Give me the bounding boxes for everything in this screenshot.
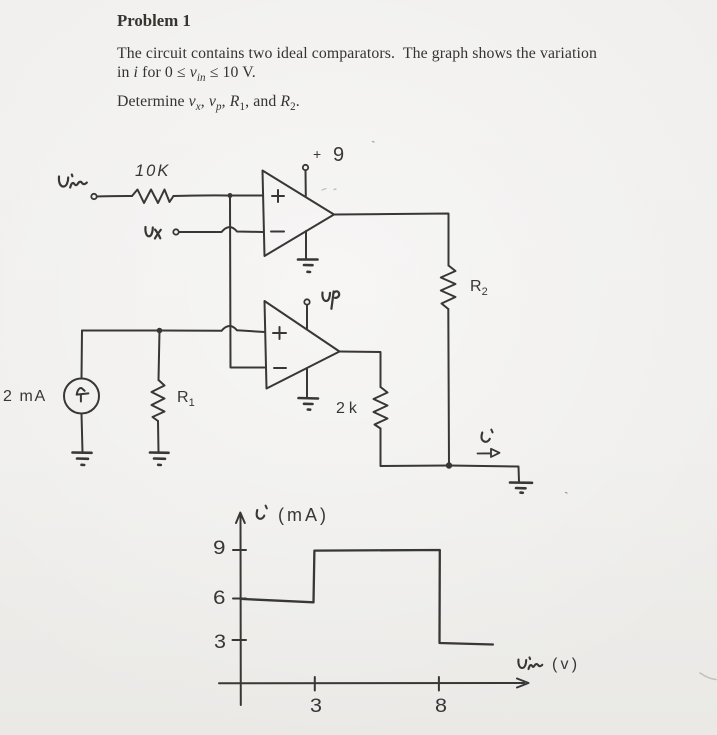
wire vp terminal to U2 top edge bbox=[306, 305, 308, 329]
faint pencil speck near U1 apex bbox=[322, 189, 336, 191]
op-amp U1 bbox=[263, 171, 335, 257]
wire U1 output to R2 bbox=[334, 214, 449, 266]
ground bottom right bbox=[510, 483, 532, 493]
wire U2 bottom edge to ground bbox=[306, 369, 308, 398]
ground below U2 bbox=[299, 398, 319, 410]
axis label i (mA) bbox=[257, 510, 265, 519]
svg-text:3: 3 bbox=[310, 695, 322, 717]
heading Problem 1 bbox=[117, 11, 191, 31]
resistor 2k bbox=[374, 387, 388, 429]
junction node B bbox=[446, 462, 452, 468]
rail wire to U2 non-inverting input with hop bbox=[82, 326, 265, 332]
curve i vs vin bbox=[241, 550, 493, 645]
faint speck above U1 bbox=[373, 141, 375, 144]
U2 minus input symbol bbox=[274, 367, 286, 369]
ground below U1 bbox=[298, 260, 318, 273]
+9 supply terminal bbox=[303, 165, 308, 170]
label vx bbox=[145, 227, 160, 239]
svg-text:8: 8 bbox=[435, 695, 447, 717]
axis label vin (v) bbox=[518, 658, 542, 670]
svg-text:6: 6 bbox=[213, 587, 226, 609]
ground below R1 bbox=[150, 453, 169, 466]
x tick 3 bbox=[314, 677, 316, 691]
wire +9 terminal to U1 top edge bbox=[305, 171, 307, 197]
svg-text:(v): (v) bbox=[552, 656, 580, 673]
x tick 8 bbox=[438, 677, 440, 691]
svg-text:2k: 2k bbox=[336, 400, 358, 417]
wire vin terminal to resistor 10K bbox=[97, 195, 132, 198]
page curl mark bottom right corner bbox=[700, 673, 716, 680]
junction node A bbox=[228, 193, 233, 198]
wire node B to ground bbox=[449, 466, 519, 483]
junction node C bbox=[157, 328, 163, 334]
svg-text:10K: 10K bbox=[135, 162, 170, 180]
svg-text:2 mA: 2 mA bbox=[3, 388, 47, 405]
paragraph problem statement bbox=[117, 44, 597, 89]
wire U2 output to resistor 2k bbox=[340, 352, 381, 388]
ground below current source bbox=[73, 453, 92, 466]
wire R1 to ground bbox=[157, 421, 160, 452]
U1 minus input symbol bbox=[271, 231, 284, 233]
wire node A down to U2 inverting input bbox=[230, 198, 265, 368]
wire resistor 10K to node A bbox=[174, 194, 231, 197]
label vin bbox=[59, 175, 87, 188]
wire U1 bottom edge to ground bbox=[305, 231, 307, 259]
svg-text:9: 9 bbox=[333, 144, 344, 166]
svg-text:9: 9 bbox=[213, 537, 226, 559]
wire R2 to bottom node B bbox=[447, 309, 450, 466]
current source arrow bbox=[77, 388, 89, 401]
resistor R1 bbox=[152, 380, 165, 421]
vp supply terminal bbox=[304, 299, 309, 304]
graph x-axis with arrow bbox=[219, 679, 529, 688]
node vin terminal bbox=[91, 194, 96, 199]
wire vx terminal to U1 inverting input with hop over vertical wire bbox=[179, 227, 263, 232]
svg-text:R1: R1 bbox=[177, 389, 195, 409]
svg-text:+: + bbox=[313, 146, 321, 162]
resistor R2 bbox=[441, 266, 456, 310]
wire node C to resistor R1 bbox=[159, 331, 160, 381]
graph y-axis with arrow bbox=[236, 513, 245, 706]
U2 plus input symbol bbox=[273, 327, 286, 339]
faint speck right of graph bbox=[566, 492, 568, 495]
paragraph determine bbox=[117, 93, 300, 113]
node vx terminal bbox=[173, 229, 178, 234]
label i with arrow bbox=[482, 433, 490, 442]
op-amp U2 bbox=[265, 301, 340, 389]
y tick 3 bbox=[233, 639, 247, 641]
y tick 6 bbox=[233, 598, 246, 600]
wire node A to op-amp U1 non-inverting input bbox=[230, 195, 263, 197]
wire current source to ground bbox=[82, 414, 83, 453]
svg-text:R2: R2 bbox=[470, 278, 488, 298]
current source I1 bbox=[64, 379, 99, 414]
wire current source to rail bbox=[81, 331, 84, 379]
U1 plus input symbol bbox=[272, 190, 284, 202]
svg-text:(mA): (mA) bbox=[278, 505, 329, 525]
wire 2k to bottom wire bbox=[381, 429, 450, 467]
label vp bbox=[322, 291, 339, 308]
resistor 10K bbox=[132, 190, 174, 204]
y tick 9 bbox=[233, 549, 246, 551]
svg-text:3: 3 bbox=[214, 631, 226, 653]
